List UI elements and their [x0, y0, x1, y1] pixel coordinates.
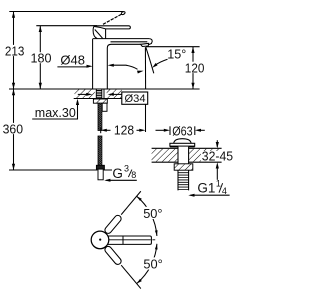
- label diameter 34 boxed: [122, 92, 148, 105]
- lever underside slant: [94, 26, 106, 29]
- svg-text:120: 120: [185, 60, 205, 75]
- svg-text:128: 128: [114, 122, 134, 137]
- 15 degree leader: [155, 59, 167, 65]
- arc arrowhead lower start: [137, 279, 142, 284]
- aerator: [141, 43, 149, 46]
- arrowheads: 213 / 180 / 360: [12, 12, 42, 171]
- svg-text:1: 1: [216, 179, 221, 189]
- label 50 degrees upper: [142, 206, 165, 221]
- arrow 213 down: [12, 83, 15, 89]
- G 1 1/4 underline and leader: [191, 194, 230, 196]
- body right edge with inner corner to spout underside: [107, 44, 140, 89]
- svg-text:Ø63: Ø63: [172, 123, 193, 138]
- drain flange disc: [170, 143, 195, 146]
- countertop deck line: [9, 88, 200, 90]
- plan view: upper arm at 50 degrees: [104, 189, 144, 235]
- drain body tube: [178, 147, 189, 191]
- braided supply hose lower segment: [98, 136, 102, 165]
- spout inner top line: [111, 41, 148, 43]
- water stream line at 15 degrees: [146, 47, 154, 73]
- dimension 180 vertical line: [39, 26, 41, 89]
- arc arrowhead upper end: [155, 230, 158, 236]
- label 50 degrees lower: [142, 257, 165, 272]
- plan view: lower arm at 50 degrees: [104, 245, 144, 291]
- arrow 120 down: [191, 83, 194, 89]
- dimension 120 vertical line: [192, 47, 194, 89]
- svg-text:213: 213: [5, 43, 25, 58]
- lever wedge back: [93, 26, 97, 39]
- threaded shank through deck: [96, 89, 104, 99]
- drain countertop hatched band: [152, 149, 178, 162]
- svg-text:4: 4: [222, 186, 227, 196]
- dimension 128: [145, 105, 147, 133]
- connection rod: [102, 103, 107, 111]
- wire top extension line (213 level): [9, 11, 123, 13]
- label diameter 63: [171, 123, 193, 138]
- spout tip: [149, 39, 153, 45]
- plan view: lever horizontal: [102, 236, 151, 244]
- plan view: upper 50 degree arc: [137, 196, 157, 236]
- body left edge: [92, 39, 94, 89]
- svg-text:G1: G1: [197, 180, 215, 195]
- dimension 32-45 upper: [216, 140, 218, 147]
- lever wedge inner diagonal: [95, 30, 103, 39]
- arc arrowhead lower end: [155, 244, 158, 250]
- svg-text:Ø34: Ø34: [125, 93, 146, 105]
- extension line spout outlet (120 level): [146, 46, 200, 48]
- svg-text:50°: 50°: [143, 257, 162, 272]
- dimension 32-45 lower: [216, 165, 218, 180]
- drain locking nut: [174, 164, 193, 170]
- curved tail from d48 arrow to plumb line with arrowhead: [112, 65, 138, 69]
- raised lever tip knob: [121, 11, 126, 15]
- cartridge front line: [105, 29, 107, 39]
- arrow d48 pointing left at body right edge: [108, 64, 114, 67]
- arrow 120 up: [191, 47, 194, 53]
- G 3/8 underline and leader: [106, 179, 137, 181]
- hose end tube G3/8: [98, 169, 103, 180]
- plan view: lever axis centerline: [109, 239, 155, 241]
- svg-text:G: G: [112, 166, 123, 181]
- hose ferrule: [96, 165, 104, 169]
- arrow 180 down: [39, 83, 42, 89]
- spout top line: [93, 38, 149, 40]
- drain detail: diameter 63 dimension extension lines: [156, 126, 205, 135]
- svg-text:3: 3: [124, 163, 129, 173]
- arrow max30 up: [76, 99, 79, 105]
- fraction slash G3/8: [128, 170, 132, 178]
- drain cap dome: [174, 139, 191, 144]
- dimension 213 vertical line: [13, 12, 15, 90]
- diameter 48 underline and leader: [57, 65, 89, 68]
- arrow d48 pointing right at body left edge: [87, 65, 93, 68]
- svg-text:360: 360: [3, 121, 23, 136]
- label 120: [184, 60, 205, 75]
- wire second extension line (180 level): [36, 25, 97, 27]
- plan view: faucet body circle: [91, 231, 109, 249]
- braided supply hose upper segment: [98, 103, 102, 130]
- label 32-45: [201, 149, 233, 164]
- svg-text:max.30: max.30: [35, 105, 76, 120]
- countertop hatched band right segment: [107, 90, 122, 99]
- arrow 180 up: [39, 26, 42, 32]
- svg-text:15°: 15°: [167, 46, 186, 61]
- arrow 360 up: [12, 89, 15, 95]
- lever raised position (dashed): [103, 14, 122, 24]
- fraction slash G1 1/4: [219, 183, 223, 193]
- svg-text:180: 180: [31, 50, 52, 65]
- water stream plumb reference line: [144, 47, 146, 88]
- lever bar top: [94, 26, 131, 29]
- label 128: [113, 122, 134, 137]
- arrow 360 down: [12, 164, 15, 170]
- plan view: lower 50 degree arc: [137, 244, 157, 284]
- drain thread: [178, 173, 189, 190]
- max.30 underline and leader: [32, 101, 77, 120]
- plan view: lever grip joint line: [122, 236, 124, 244]
- svg-text:50°: 50°: [143, 206, 162, 221]
- svg-text:Ø48: Ø48: [60, 53, 85, 68]
- svg-text:32-45: 32-45: [202, 149, 233, 164]
- svg-text:8: 8: [131, 170, 136, 180]
- plan view: pivot dot: [99, 239, 101, 241]
- label 213: [4, 43, 26, 58]
- arc arrowhead upper start: [137, 196, 142, 201]
- label 360: [2, 121, 24, 136]
- faucet side view: [93, 11, 153, 89]
- label 180: [30, 50, 52, 65]
- mounting nut: [93, 99, 107, 103]
- countertop hatched band left segment: [75, 90, 95, 99]
- dimension 360 vertical line: [13, 89, 15, 170]
- arrow 213 up: [12, 12, 15, 18]
- diameter 34 arrows at deck hole: [78, 93, 88, 95]
- countertop band bottom line: [74, 98, 122, 100]
- bottom reference line at hose end: [9, 169, 112, 171]
- 15 degree leader arrowhead: [152, 63, 157, 68]
